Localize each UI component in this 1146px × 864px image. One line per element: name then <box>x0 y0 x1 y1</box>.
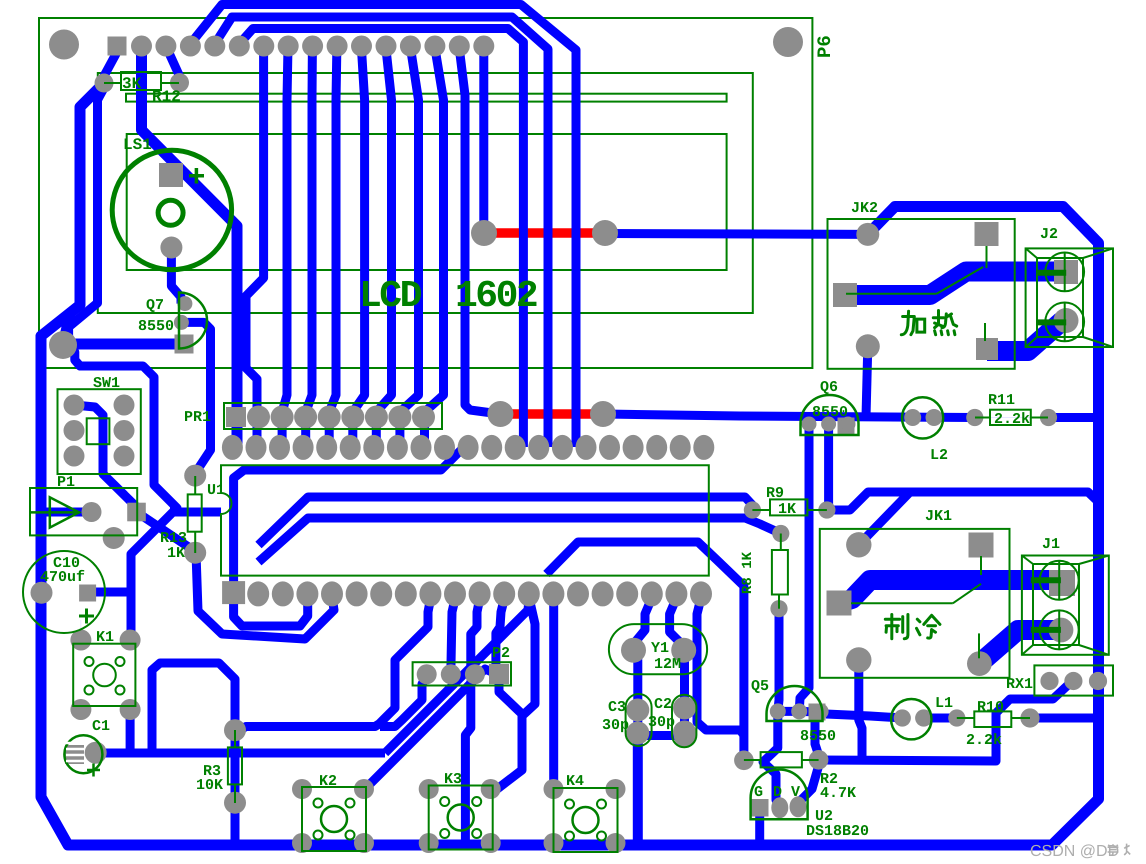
svg-text:2.2k: 2.2k <box>994 411 1030 428</box>
svg-text:1602: 1602 <box>455 275 537 318</box>
svg-text:SW1: SW1 <box>93 375 120 392</box>
svg-text:K3: K3 <box>444 771 462 788</box>
svg-text:R11: R11 <box>988 392 1015 409</box>
svg-text:P1: P1 <box>57 474 75 491</box>
svg-text:J1: J1 <box>1042 536 1060 553</box>
svg-text:R9: R9 <box>766 485 784 502</box>
svg-text:470uf: 470uf <box>40 569 85 586</box>
svg-text:G: G <box>754 784 763 801</box>
svg-text:L2: L2 <box>930 447 948 464</box>
svg-text:R12: R12 <box>152 88 181 106</box>
svg-text:1K: 1K <box>778 501 796 518</box>
svg-text:DS18B20: DS18B20 <box>806 823 869 840</box>
svg-text:R10: R10 <box>977 699 1004 716</box>
svg-text:R8 1K: R8 1K <box>740 551 756 594</box>
svg-text:PR1: PR1 <box>184 409 211 426</box>
svg-text:L1: L1 <box>935 695 953 712</box>
svg-text:C1: C1 <box>92 718 110 735</box>
svg-text:JK1: JK1 <box>925 508 952 525</box>
svg-text:Q6: Q6 <box>820 379 838 396</box>
svg-text:Q7: Q7 <box>146 297 164 314</box>
svg-text:JK2: JK2 <box>851 200 878 217</box>
svg-text:8550: 8550 <box>138 318 174 335</box>
svg-text:4.7K: 4.7K <box>820 785 856 802</box>
svg-text:P2: P2 <box>492 645 510 662</box>
svg-text:Q5: Q5 <box>751 678 769 695</box>
svg-text:30p: 30p <box>602 717 629 734</box>
svg-text:K1: K1 <box>96 629 114 646</box>
svg-text:K2: K2 <box>319 773 337 790</box>
svg-text:1K: 1K <box>167 545 185 562</box>
svg-text:J2: J2 <box>1040 226 1058 243</box>
svg-text:30p: 30p <box>648 714 675 731</box>
svg-text:K4: K4 <box>566 773 584 790</box>
svg-text:10K: 10K <box>196 777 223 794</box>
svg-text:2.2k: 2.2k <box>966 732 1002 749</box>
svg-text:LCD: LCD <box>359 275 422 318</box>
svg-text:D: D <box>773 784 782 801</box>
svg-text:V: V <box>791 784 800 801</box>
svg-text:C2: C2 <box>654 696 672 713</box>
svg-text:3K: 3K <box>122 75 142 93</box>
svg-text:8550: 8550 <box>800 728 836 745</box>
svg-text:P6: P6 <box>814 35 836 58</box>
svg-text:LS1: LS1 <box>123 136 152 154</box>
svg-text:U1: U1 <box>207 482 225 499</box>
svg-text:8550: 8550 <box>812 404 848 421</box>
svg-text:CSDN @DD: CSDN @DD <box>1030 843 1119 860</box>
svg-text:C3: C3 <box>608 699 626 716</box>
svg-text:12M: 12M <box>654 656 681 673</box>
svg-text:Y1: Y1 <box>651 640 669 657</box>
svg-text:RX1: RX1 <box>1006 676 1033 693</box>
